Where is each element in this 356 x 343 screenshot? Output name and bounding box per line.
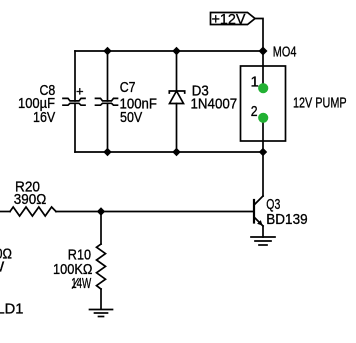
- svg-text:16V: 16V: [33, 109, 55, 126]
- junction top rail at D3: [172, 47, 180, 55]
- junction R20/R10/base: [97, 207, 105, 215]
- svg-text:2: 2: [251, 103, 258, 120]
- wire pin 2 lead: [262, 117, 264, 152]
- diode D3: [169, 51, 237, 152]
- junction bottom rail at C7: [103, 148, 111, 156]
- wire top rail: [75, 50, 263, 52]
- resistor (off-canvas left, partial value labels): [0, 246, 12, 276]
- svg-text:14W: 14W: [71, 275, 92, 292]
- junction bottom rail right: [259, 148, 267, 156]
- junction node MO4: [259, 47, 268, 56]
- svg-text:BD139: BD139: [266, 211, 307, 228]
- junction bottom rail at D3: [172, 148, 180, 156]
- svg-text:390Ω: 390Ω: [14, 191, 47, 208]
- svg-text:12V PUMP: 12V PUMP: [293, 94, 347, 111]
- resistor R10: [53, 212, 106, 310]
- svg-text:1N4007: 1N4007: [191, 96, 238, 113]
- ground (R10): [90, 310, 113, 317]
- pin 1: [251, 74, 269, 94]
- transistor Q3: [254, 196, 308, 237]
- svg-text:C7: C7: [120, 79, 136, 96]
- junction top rail at C7: [103, 47, 111, 55]
- svg-text:MO4: MO4: [273, 44, 297, 61]
- wire bottom rail: [75, 151, 263, 153]
- svg-text:+: +: [76, 83, 84, 98]
- svg-text:50V: 50V: [120, 109, 142, 126]
- resistor R20: [0, 178, 101, 216]
- capacitor C8: [18, 51, 85, 152]
- svg-text:+12V: +12V: [212, 11, 246, 28]
- wire base to Q3: [101, 211, 254, 213]
- ground (Q3 emitter): [251, 237, 275, 245]
- wire flag to MO4 corner: [255, 19, 263, 52]
- svg-text:1: 1: [251, 74, 259, 91]
- pin 2: [251, 103, 269, 123]
- power flag +12V: [211, 11, 256, 28]
- wire bottom junction to Q3 collector: [262, 152, 264, 196]
- svg-text:LD1: LD1: [0, 301, 24, 318]
- connector 12V PUMP: [241, 66, 347, 141]
- capacitor C7: [96, 51, 158, 152]
- wire pin 1 lead: [262, 51, 264, 88]
